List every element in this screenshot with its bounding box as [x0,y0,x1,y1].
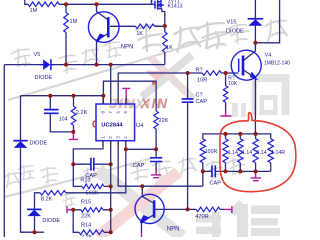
resistor 1K horizontal [136,24,155,29]
wire line B pin6 to gate [118,73,238,104]
resistor 10K vertical [223,86,228,103]
node bank top b [238,132,242,136]
node line B / 10K [224,71,228,75]
svg-text:DIODE: DIODE [226,29,244,35]
svg-text:DIODE: DIODE [30,141,48,147]
resistor bank 100R [200,139,205,163]
wire fb cap leads [73,163,110,165]
terminal NPN emitter magenta [141,233,143,237]
node R13 right [109,184,113,188]
svg-text:CAP: CAP [210,181,222,187]
ground under 10K magenta [220,110,231,116]
wire 470R leads [188,208,225,210]
wire 1K vertical leads [164,26,166,65]
terminal R15 magenta [67,206,73,213]
svg-text:U4: U4 [136,123,144,129]
svg-text:1K: 1K [136,31,143,37]
node bank top a [224,132,228,136]
watermark red accent [152,82,157,87]
node wire95 / 2.2K [72,94,76,98]
wire top horizontal after 1M [59,3,155,5]
node base / 470R [186,207,190,211]
wire V4 collector [244,43,256,61]
node 22K / gndcap [154,147,158,151]
node bus D / collector [140,184,144,188]
transistor NPN top [88,12,119,43]
svg-text:2.2K: 2.2K [76,110,88,116]
node bottom diode [33,230,37,234]
node R15 right [109,208,113,212]
wire NPN bottom emitter [142,215,155,234]
svg-text:10K: 10K [228,81,238,87]
wire left rail [3,65,5,237]
annotation red ellipse [220,113,296,192]
pin number 8 [100,110,128,138]
svg-text:8.2K: 8.2K [41,197,53,203]
node bank bottom c [254,169,258,173]
watermark big gray block char bottom right [196,200,280,237]
capacitor gnd CAP [150,158,162,162]
wire pin2 chain [110,141,112,233]
node pin4 / gndcap [124,147,128,151]
svg-text:R13: R13 [80,178,90,184]
wire left rail 2 with V5b diode [21,96,45,233]
node bank bottom a [224,169,228,173]
resistor 22K vertical [154,111,159,129]
resistor 1M vertical [64,13,69,33]
capacitor C? [182,99,194,102]
resistor bank 1.14 c [253,139,258,163]
wire R?10K leads [225,73,227,110]
wire pin1 chain [73,141,110,187]
svg-text:1.14: 1.14 [257,150,267,156]
wire R15 leads [73,209,111,211]
wire V4 emitter down [244,70,256,134]
resistor bank 1.14 b [238,139,243,163]
node 1K base [163,24,167,28]
resistor 1K vertical [163,32,168,52]
wire MOSFET source down [162,9,165,27]
watermark big gray block char top right [232,74,290,117]
svg-text:R14: R14 [81,223,91,229]
wire bank resistor bottom stubs [203,163,271,172]
diode bottom-left vertical [27,209,42,216]
wire NPN top base to 1K [110,25,165,27]
svg-text:1.14R: 1.14R [271,150,285,156]
resistor R15 horizontal [81,208,103,213]
wire 1M vertical leads [65,4,67,64]
resistor 10R horizontal [202,71,221,76]
watermark logo small X center [142,55,192,97]
svg-text:1M: 1M [30,8,38,14]
wire gnd cap leads [155,149,157,172]
svg-text:XIN: XIN [140,95,169,111]
resistor bank 1.14 a [223,139,228,163]
ground under gnd-cap magenta [151,168,161,178]
resistor bank 1.14R [268,139,273,163]
ground under bank magenta [251,171,261,180]
transistor V4 IGBT [231,50,261,80]
wire V15 column [254,0,256,43]
resistor 2.2K vertical [71,106,76,125]
svg-text:2.2K: 2.2K [81,235,93,238]
node fb cap right [109,162,113,166]
wire bank left drop to bus D [202,171,204,186]
resistor 470R horizontal [196,207,220,212]
node 104 / gnd [71,130,75,134]
watermark calligraphy row 1 [11,47,32,68]
watermark gray swoosh lower [4,158,152,197]
wire bank top bus [203,134,271,139]
node bank bottom 0 [201,169,205,173]
node bank top c [254,132,258,136]
svg-text:1.14: 1.14 [228,150,238,156]
watermark calligraphy row 2 [4,171,22,188]
resistor 8.2K horizontal [40,191,66,196]
svg-text:V5: V5 [34,52,41,58]
wire bus D [118,141,203,187]
svg-text:1K: 1K [166,45,173,51]
svg-text:R?: R? [196,67,203,73]
svg-text:C?: C? [196,92,203,98]
watermark pink wedge [145,71,168,81]
wire pin4 branch to gnd cap [126,148,156,150]
power bar pin5 magenta [122,88,130,104]
watermark gray swoosh upper [8,32,232,100]
svg-text:10R: 10R [197,77,207,83]
wire NPN bottom collector [142,186,154,203]
capacitor 104 [44,110,59,114]
wire NPN bottom base right [155,208,187,210]
diode V5b left vertical [13,141,28,148]
node wire95 / 104 [48,94,52,98]
ground under 2.2K magenta [69,132,78,140]
wire line C pin8 up over to 22K [103,81,156,149]
node R15 left [71,208,75,212]
svg-text:470R: 470R [195,214,208,220]
transistor NPN bottom [135,194,164,223]
svg-text:104: 104 [59,117,68,123]
wire branch to right rail [255,0,279,43]
svg-text:UC2844: UC2844 [101,123,123,129]
diode V5 horizontal [39,59,54,70]
capacitor fb CAP [91,158,94,171]
svg-text:1.14: 1.14 [242,150,252,156]
wire horizontal y95.7 [21,96,104,104]
node top wire / NPN collector [95,2,99,6]
svg-text:V15: V15 [227,20,237,26]
svg-text:NPN: NPN [121,45,134,51]
node R14 right [109,230,113,234]
IC pin stubs black [103,98,126,146]
svg-text:1M: 1M [70,19,78,25]
node top wire / 1M [64,2,68,6]
wire NPN top collector [97,4,108,19]
node wire95 / pin8 [101,94,105,98]
resistor 1M horizontal [28,2,59,7]
wire 2.2K leads [73,96,75,132]
transistor MOSFET K1413 [152,0,164,10]
wire bank bottom bus with cap gap [203,170,271,172]
svg-text:DIODE: DIODE [35,75,53,81]
wire bus A [4,64,165,66]
svg-text:1MB12-140: 1MB12-140 [264,60,290,66]
wire top stub [25,0,28,4]
svg-text:V4: V4 [265,53,272,59]
wire C? cap column x187.6 [187,73,189,209]
svg-text:22K: 22K [159,118,169,124]
capacitor bank CAP [212,165,215,177]
node bus A / emitter [95,63,99,67]
IC U1 UC2844 box [93,104,135,141]
wire bank resistor top stubs [226,134,256,139]
node fb cap left [71,162,75,166]
svg-text:100R: 100R [205,149,218,155]
wire NPN top emitter down [97,34,108,65]
wire pin7 drop from bus A [110,65,112,104]
svg-text:CAP: CAP [196,99,208,105]
node line B / C cap [186,71,190,75]
terminal 470R magenta [224,206,232,213]
wire 104 cap leads [50,96,73,132]
svg-text:2VT1: 2VT1 [168,0,180,4]
svg-text:560K: 560K [86,190,99,196]
resistor R13 horizontal [82,184,104,189]
svg-text:R15: R15 [81,200,91,206]
svg-text:CAP: CAP [133,163,145,169]
wire pin4 chain down to 8.2K line [35,141,126,233]
node V15 / V4 [253,41,257,45]
node bus A / pin7 [109,63,113,67]
node bank bottom b [238,169,242,173]
wire R14 drop and leads [73,210,111,233]
svg-text:22K: 22K [81,214,91,220]
node bus A / 1M [64,63,68,67]
svg-text:DIODE: DIODE [42,218,60,224]
watermark big X bottom center [98,170,182,237]
resistor R14 horizontal [79,230,104,235]
diode V15 vertical [248,19,264,26]
svg-text:NPN: NPN [167,227,180,233]
